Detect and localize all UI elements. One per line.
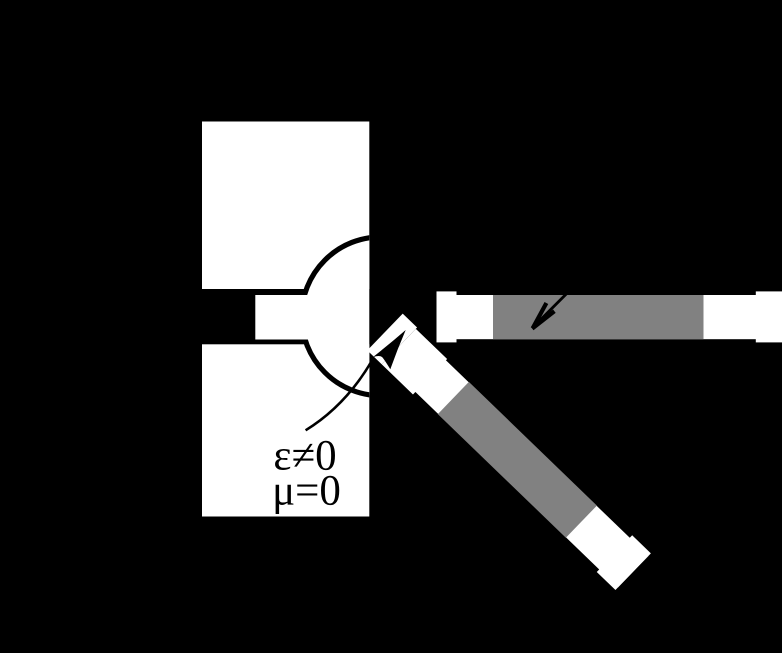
label arrowhead [373,330,406,369]
upper wall block [202,122,369,290]
waveguide channel [255,295,317,340]
svg-text:μ=0: μ=0 [272,468,341,515]
diagonal rod [367,314,651,590]
horizontal rod gray section [493,295,704,339]
diagonal rod front collar [382,329,447,395]
horizontal rod tube [456,295,758,339]
horizontal rod right cap [756,291,782,342]
diagonal rod far cap [597,535,651,590]
cavity circle [302,237,461,396]
diagonal rod near cap [367,314,417,365]
horizontal rod left cap [437,291,457,342]
beam arrow on horizontal rod [532,294,566,329]
label leader line [306,361,372,431]
lower wall block [202,344,369,516]
diagonal rod tube [415,360,649,588]
diagonal rod gray section [438,382,597,538]
